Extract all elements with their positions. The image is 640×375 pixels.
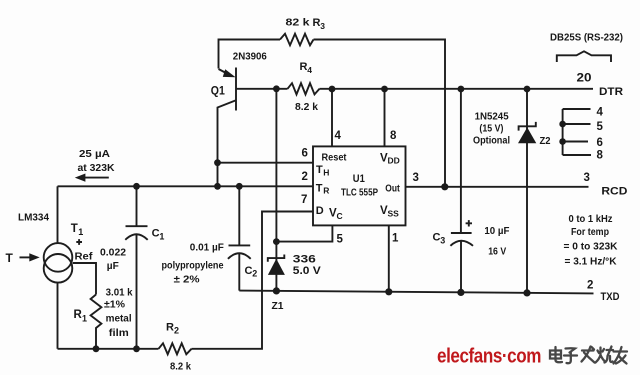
svg-text:3: 3 (413, 172, 419, 184)
svg-text:6: 6 (302, 147, 308, 159)
svg-text:SS: SS (388, 208, 400, 218)
svg-text:2: 2 (174, 325, 179, 335)
svg-text:R: R (323, 185, 329, 195)
svg-text:at 323K: at 323K (78, 162, 115, 174)
svg-text:Optional: Optional (473, 135, 510, 147)
svg-text:1N5245: 1N5245 (475, 111, 509, 123)
svg-text:1: 1 (392, 233, 399, 245)
svg-text:5: 5 (337, 233, 344, 245)
svg-text:8: 8 (597, 150, 604, 162)
svg-text:film: film (109, 327, 129, 339)
svg-text:H: H (323, 167, 329, 177)
svg-text:3: 3 (440, 235, 445, 245)
svg-text:336: 336 (293, 254, 316, 266)
svg-text:Out: Out (385, 182, 400, 194)
svg-text:C: C (152, 227, 160, 239)
svg-text:5.0 V: 5.0 V (293, 265, 322, 277)
svg-text:polypropylene: polypropylene (162, 261, 224, 272)
svg-text:C: C (245, 265, 253, 277)
svg-text:16 V: 16 V (488, 245, 506, 257)
svg-text:Ref: Ref (75, 252, 94, 263)
svg-text:0.01 µF: 0.01 µF (190, 242, 225, 254)
svg-text:4: 4 (307, 65, 312, 75)
svg-text:= 3.1 Hz/°K: = 3.1 Hz/°K (565, 255, 617, 267)
svg-text:10 µF: 10 µF (484, 225, 510, 237)
svg-text:C: C (337, 211, 343, 221)
svg-text:TXD: TXD (601, 291, 620, 303)
svg-text:2: 2 (302, 171, 308, 183)
svg-text:82 k: 82 k (286, 17, 310, 29)
svg-text:C: C (433, 231, 441, 243)
svg-text:R: R (166, 322, 174, 334)
svg-text:elecfans·com: elecfans·com (437, 346, 541, 368)
svg-text:metal: metal (106, 313, 132, 325)
svg-text:2: 2 (252, 269, 257, 279)
svg-text:TLC 555P: TLC 555P (341, 186, 378, 198)
svg-text:8: 8 (390, 130, 397, 142)
svg-text:DD: DD (388, 156, 400, 166)
svg-text:20: 20 (577, 73, 592, 85)
svg-text:D: D (316, 205, 324, 217)
svg-text:Reset: Reset (322, 151, 347, 163)
svg-text:T: T (316, 182, 323, 194)
svg-text:Z2: Z2 (540, 135, 551, 147)
svg-text:RCD: RCD (601, 186, 627, 198)
svg-text:U1: U1 (353, 173, 365, 185)
svg-text:1: 1 (82, 313, 87, 323)
svg-text:8.2 k: 8.2 k (295, 102, 318, 113)
svg-text:3: 3 (584, 172, 590, 184)
svg-text:1: 1 (78, 227, 83, 237)
svg-text:25 µA: 25 µA (79, 148, 110, 160)
svg-text:0.022: 0.022 (100, 246, 126, 258)
svg-text:DB25S (RS-232): DB25S (RS-232) (550, 31, 623, 43)
svg-text:4: 4 (597, 107, 604, 119)
svg-text:8.2 k: 8.2 k (170, 362, 191, 373)
svg-text:µF: µF (107, 260, 120, 272)
svg-text:3.01 k: 3.01 k (106, 286, 133, 298)
svg-text:4: 4 (335, 130, 342, 142)
svg-text:T: T (71, 223, 78, 235)
svg-text:± 2%: ± 2% (174, 273, 201, 285)
svg-text:5: 5 (597, 121, 604, 133)
svg-text:For temp: For temp (571, 226, 609, 238)
svg-text:R: R (313, 17, 321, 29)
svg-text:6: 6 (597, 137, 603, 149)
svg-text:2N3906: 2N3906 (233, 51, 267, 63)
svg-text:T: T (316, 164, 323, 176)
svg-text:7: 7 (301, 194, 307, 206)
svg-text:T: T (6, 251, 14, 265)
svg-text:R: R (300, 61, 308, 73)
svg-text:= 0 to 323K: = 0 to 323K (564, 241, 618, 253)
svg-text:Q1: Q1 (211, 86, 226, 98)
svg-text:1: 1 (159, 231, 164, 241)
svg-text:Z1: Z1 (272, 300, 284, 312)
svg-text:0 to 1 kHz: 0 to 1 kHz (569, 213, 613, 225)
svg-text:±1%: ±1% (104, 299, 126, 311)
svg-text:3: 3 (320, 21, 325, 31)
svg-text:(15 V): (15 V) (479, 122, 503, 134)
svg-text:LM334: LM334 (18, 211, 49, 223)
svg-text:2: 2 (587, 279, 593, 291)
svg-text:DTR: DTR (599, 86, 623, 98)
